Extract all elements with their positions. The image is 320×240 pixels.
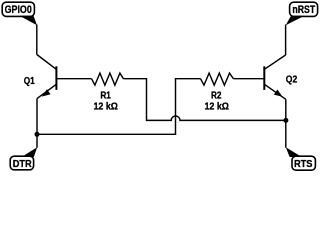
svg-text:12 kΩ: 12 kΩ: [93, 102, 118, 113]
wire Q2 emitter down to RTS: [285, 99, 287, 148]
svg-text:R2: R2: [211, 91, 222, 102]
port label RTS: [286, 147, 316, 170]
port label GPIO0: [2, 2, 37, 25]
node DTR junction: [35, 132, 40, 137]
wire DTR rail to R2: [37, 79, 201, 135]
transistor Q2: [264, 55, 286, 99]
wire Q1 emitter down to DTR: [36, 99, 38, 148]
svg-text:RTS: RTS: [294, 159, 313, 170]
svg-text:R1: R1: [100, 91, 111, 102]
wire R1 to RTS node (hops over DTR-R2 wire): [123, 79, 286, 121]
svg-text:DTR: DTR: [13, 159, 33, 170]
svg-text:12 kΩ: 12 kΩ: [204, 102, 229, 113]
wire Q2 base lead: [233, 78, 264, 80]
port label nRST: [286, 2, 318, 25]
wire nRST to Q2 collector: [285, 25, 287, 56]
wire GPIO0 to Q1 collector: [36, 25, 38, 55]
transistor Q1: [37, 55, 57, 99]
svg-text:Q2: Q2: [286, 75, 298, 86]
node RTS junction: [283, 118, 288, 123]
resistor R1: [92, 73, 124, 85]
svg-text:nRST: nRST: [292, 4, 315, 16]
port label DTR: [10, 147, 37, 170]
svg-text:GPIO0: GPIO0: [5, 4, 32, 16]
svg-text:Q1: Q1: [24, 76, 35, 87]
resistor R2: [201, 73, 234, 85]
wire Q1 base lead: [56, 78, 92, 80]
